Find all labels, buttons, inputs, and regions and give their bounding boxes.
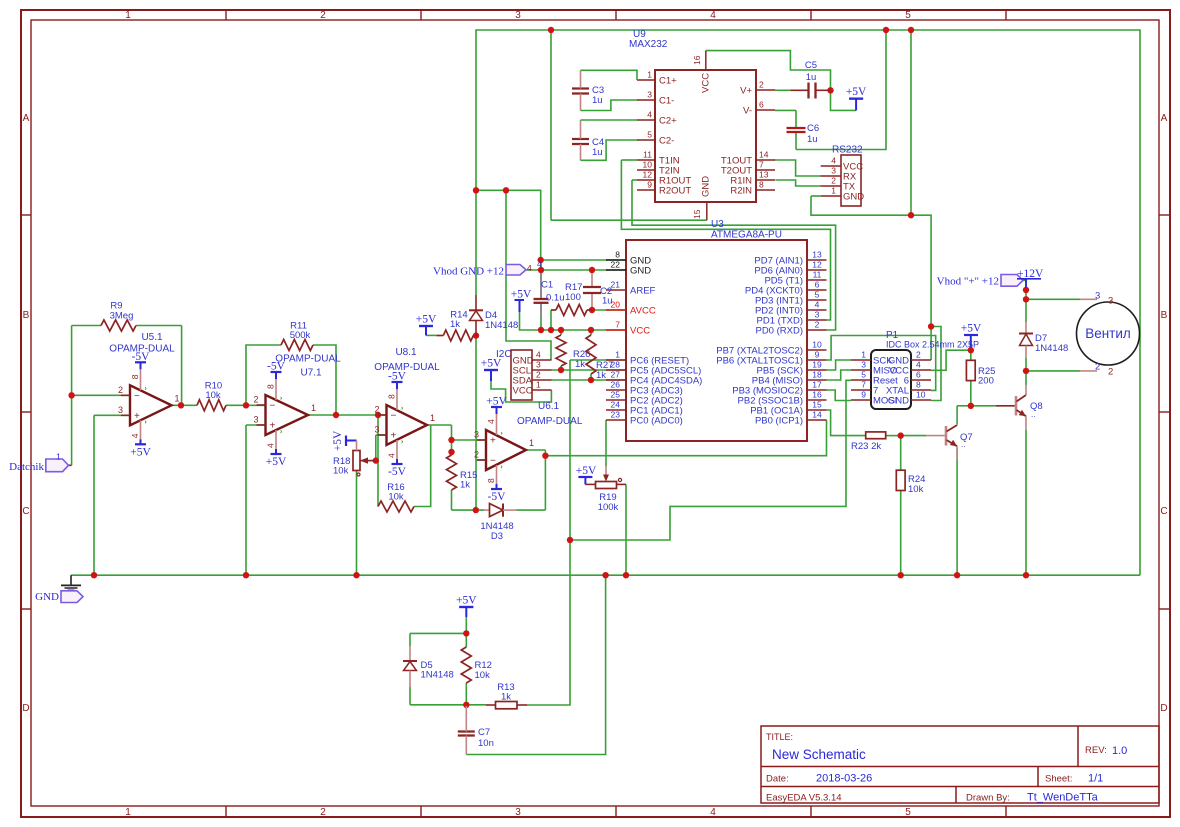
wire to Q7 base [901,435,926,437]
wire D7 to motor pin2 node [1025,358,1027,385]
svg-text:10k: 10k [333,466,349,477]
svg-text:2018-03-26: 2018-03-26 [816,773,872,785]
capacitor C6 [787,123,820,145]
svg-text:+5V: +5V [266,456,287,468]
wire R10 to U7 [226,404,266,406]
svg-text:C: C [1160,506,1167,517]
junction [538,267,544,273]
svg-text:7: 7 [615,320,620,330]
junction [375,412,381,418]
svg-text:+: + [391,431,397,442]
wire R26 top [560,330,562,335]
svg-text:12: 12 [812,260,822,270]
junction [898,572,904,578]
svg-text:GND: GND [888,396,909,407]
svg-text:+5V: +5V [456,595,477,607]
wire C5 to +5V [831,90,857,110]
resistor R24 [896,470,925,495]
svg-text:GND: GND [843,192,864,203]
wire U7 noninverting input [246,424,266,426]
svg-text:+5V: +5V [576,465,597,477]
svg-text:1u: 1u [602,296,613,307]
svg-text:D3: D3 [491,531,503,542]
svg-text:1: 1 [125,10,131,21]
junction [448,449,454,455]
resistor R26 [556,335,590,370]
wire SDA [552,379,627,381]
wire C4 top [581,119,638,121]
port flag [506,265,526,276]
svg-text:100: 100 [565,292,581,303]
diode D7 1N4148 [1019,322,1068,358]
wire U8 out [427,424,452,426]
svg-text:U5.1: U5.1 [141,332,163,343]
svg-text:2: 2 [118,385,123,395]
svg-text:-5V: -5V [488,491,507,503]
svg-text:PD0 (RXD): PD0 (RXD) [755,326,803,337]
svg-text:16: 16 [692,55,702,65]
svg-text:MAX232: MAX232 [629,39,668,50]
svg-text:Date:: Date: [766,774,789,785]
junction [558,327,564,333]
junction [954,572,960,578]
wire P1 pin4 VCC [931,350,971,370]
svg-text:8: 8 [266,384,276,389]
svg-text:4: 4 [710,807,716,818]
svg-text:EasyEDA V5.3.14: EasyEDA V5.3.14 [766,793,842,804]
svg-text:4: 4 [916,360,921,370]
wire R18 wiper riser [375,435,377,461]
svg-text:25: 25 [611,390,621,400]
junction [333,412,339,418]
svg-text:1: 1 [175,393,180,403]
wire GND to C6 [796,30,886,150]
svg-text:1k: 1k [575,359,585,370]
svg-text:REV:: REV: [1085,745,1107,756]
wire R9 right [136,325,182,327]
svg-text:+: + [490,436,496,447]
svg-text:8: 8 [486,478,496,483]
junction [589,307,595,313]
junction [883,27,889,33]
wire PC6 RESET [570,359,626,361]
resistor R25 [966,360,995,386]
wire R25 to Q8 base [971,405,996,407]
svg-text:+: + [134,411,140,422]
wire R19 right lead [617,483,627,485]
wire U6 out riser [544,450,546,510]
wire U5 out [172,404,198,406]
svg-text:4: 4 [647,110,652,120]
svg-text:−: − [134,391,140,402]
junction [473,507,479,513]
wire GND to P1 pin10 [931,327,941,401]
svg-text:8: 8 [387,394,397,399]
svg-text:9: 9 [815,350,820,360]
svg-text:D: D [22,703,29,714]
wire R25 top lead [970,350,972,360]
svg-text:2: 2 [831,176,836,186]
wire D5 R12 bottom node [410,704,486,706]
wire Datchik riser [71,395,73,465]
svg-text:+: + [270,421,276,432]
junction [588,377,594,383]
capacitor C1 [534,280,565,304]
svg-text:OPAMP-DUAL: OPAMP-DUAL [374,362,440,373]
diode D4 1N4148 [469,295,518,336]
wire R23 right [886,435,901,437]
svg-text:1N4148: 1N4148 [421,670,454,681]
svg-text:5: 5 [905,807,911,818]
junction [548,27,554,33]
wire U7 pin3 to GND rail [245,425,247,575]
wire motor pin2 [1026,370,1080,372]
connector P1 IDC Box [851,350,931,410]
resistor R19 potentiometer [596,466,622,513]
wire D4 node down to D3 [475,339,477,511]
junction [1023,296,1029,302]
svg-text:C2-: C2- [659,136,674,147]
wire Datchik port [67,464,72,466]
wire VCC pin7 [520,312,627,330]
wire +5V stem R12 [465,607,467,617]
wire RS232 GND to P1 pin2 [811,196,931,360]
svg-text:18: 18 [812,370,822,380]
svg-text:GND: GND [35,591,59,603]
svg-text:VCC: VCC [513,386,533,397]
svg-text:4: 4 [527,263,532,273]
+5V symbol at R25 [961,323,982,336]
op-amp U6.1 [474,396,534,504]
svg-text:New Schematic: New Schematic [772,747,866,762]
junction [353,572,359,578]
svg-text:4: 4 [387,453,397,458]
svg-text:9: 9 [861,390,866,400]
wire SCL [552,369,627,371]
junction [542,453,548,459]
op-amp U5.1 [118,351,180,459]
svg-text:RS232: RS232 [832,145,863,156]
svg-text:1: 1 [647,70,652,80]
svg-text:10k: 10k [388,491,404,502]
svg-text:27: 27 [611,370,621,380]
wire R9 riser right [181,326,183,406]
svg-text:2: 2 [759,80,764,90]
title block [761,726,1159,803]
wire +5V stem C1 [519,300,521,312]
svg-text:+5V: +5V [332,430,344,451]
svg-text:-5V: -5V [388,466,407,478]
svg-text:C2+: C2+ [659,116,677,127]
wire V- [775,109,796,111]
diode D5 1N4148 [403,646,454,687]
svg-text:3: 3 [815,310,820,320]
wire C3 top [581,70,638,80]
wire R17 left [550,310,552,330]
svg-text:1N4148: 1N4148 [485,320,518,331]
svg-text:17: 17 [812,380,822,390]
junction [1023,287,1029,293]
svg-text:12: 12 [643,170,653,180]
wire PB3 MOSI to P1 pin9 [827,390,852,401]
wire PB6 to P1 pin8 [827,336,936,391]
wire +5V to R14 [426,334,437,336]
svg-text:−: − [391,411,397,422]
svg-text:1: 1 [529,438,534,448]
wire C3 bottom [581,100,638,111]
svg-text:10n: 10n [478,738,494,749]
wire RESET to R13 [527,540,570,705]
svg-text:1u: 1u [592,95,603,106]
wire PC0 to R19 wiper [605,420,607,466]
op-amp U9 MAX232 IC [637,51,775,221]
resistor R23 [851,432,886,452]
svg-text:+5V: +5V [961,323,982,335]
svg-text:Datchik: Datchik [9,461,44,473]
svg-text:3: 3 [515,10,521,21]
wire R12 bottom lead [465,683,467,705]
connector RS232 [821,155,865,206]
resistor R12 [461,647,492,683]
svg-text:1: 1 [615,350,620,360]
junction [463,630,469,636]
svg-text:V-: V- [743,106,752,117]
svg-text:10: 10 [643,160,653,170]
wire R19 left lead [585,483,595,485]
junction [968,347,974,353]
resistor R11 [281,321,313,351]
wire R14 left lead [437,335,444,337]
svg-text:1: 1 [430,413,435,423]
svg-text:4: 4 [266,443,276,448]
op-amp U8.1 [374,371,435,479]
svg-text:5: 5 [647,130,652,140]
svg-text:Drawn By:: Drawn By: [966,793,1010,804]
wire +5V stem R19 [584,477,586,484]
svg-text:3: 3 [374,425,379,435]
svg-text:1: 1 [56,452,61,462]
svg-text:1: 1 [536,380,541,390]
junction [243,402,249,408]
wire GND branch [476,190,541,260]
svg-text:2: 2 [536,370,541,380]
svg-text:5: 5 [861,370,866,380]
svg-text:3: 3 [515,807,521,818]
power +5V [456,595,477,608]
resistor R16 [378,482,414,512]
svg-text:OPAMP-DUAL: OPAMP-DUAL [275,354,341,365]
junction [503,187,509,193]
svg-text:Vhod GND +12: Vhod GND +12 [433,266,504,278]
wire V+ [775,89,790,91]
svg-text:V+: V+ [740,86,752,97]
svg-text:10k: 10k [475,670,491,681]
resistor R15 [447,455,478,491]
wire +5V stem I2C [490,370,492,381]
junction [538,257,544,263]
power +5V [846,86,867,99]
svg-text:7: 7 [759,160,764,170]
svg-text:1k: 1k [501,692,511,703]
svg-text:26: 26 [611,380,621,390]
svg-text:8: 8 [615,250,620,260]
svg-text:11: 11 [643,150,652,160]
svg-text:1: 1 [831,186,836,196]
svg-text:Вентил: Вентил [1085,326,1131,341]
wire Q7 collector [956,406,958,424]
svg-text:4: 4 [130,433,140,438]
junction [91,572,97,578]
svg-text:22: 22 [611,260,621,270]
port flag [61,591,83,603]
wire GND pin8 [541,259,626,261]
wire +5V stem [855,99,857,111]
junction [448,437,454,443]
wire I2C VCC [491,381,551,402]
wire R26 bottom [560,366,562,370]
svg-text:6: 6 [815,280,820,290]
wire C6 top lead [795,110,797,128]
+5V symbol at R19 [576,465,597,477]
svg-text:C5: C5 [805,60,817,71]
wire R9 left [72,325,101,327]
svg-text:A: A [1161,113,1168,124]
wire D5 R12 top node [410,632,466,634]
wire Q7 emitter to GND [956,448,958,575]
svg-text:1k: 1k [450,319,460,330]
power +12V net label [1017,268,1044,288]
wire GND top rail [476,30,1140,575]
svg-text:R2OUT: R2OUT [659,186,691,197]
svg-text:5: 5 [815,290,820,300]
junction [558,367,564,373]
svg-text:2: 2 [320,10,326,21]
svg-text:1: 1 [311,403,316,413]
svg-text:+5V: +5V [481,358,502,370]
svg-text:B: B [23,310,30,321]
resistor R13 [486,682,527,709]
svg-text:C: C [22,506,29,517]
wire C1 top lead [540,272,542,298]
transistor Q8 [996,385,1043,430]
svg-text:Sheet:: Sheet: [1045,774,1072,785]
svg-text:9: 9 [647,180,652,190]
svg-text:24: 24 [611,400,621,410]
junction [928,323,934,329]
wire R1IN to TX [775,180,821,186]
wire GND pin22 [526,269,626,271]
wire C1 bottom lead [540,303,542,318]
svg-text:1.0: 1.0 [1112,745,1127,757]
capacitor C4 [572,120,637,160]
wire T1IN [621,159,637,161]
svg-text:5: 5 [905,10,911,21]
svg-text:−: − [270,401,276,412]
wire port to I2C pin4 [506,275,551,360]
svg-text:3: 3 [536,360,541,370]
svg-text:C1+: C1+ [659,76,677,87]
wire D5 top lead [409,633,411,646]
svg-text:4: 4 [486,419,496,424]
svg-text:..: .. [1031,410,1035,419]
transistor Q7 [926,424,973,460]
wire PB1 to R23 [827,410,866,436]
svg-text:VCC: VCC [630,326,650,337]
wire MAX232 GND15 [551,219,707,221]
svg-text:C1-: C1- [659,96,674,107]
wire R1OUT to PD0 RXD [632,180,836,330]
svg-text:8: 8 [759,180,764,190]
wire R19 to GND rail [625,484,627,575]
wire motor pin3 [1026,298,1080,300]
svg-text:10k: 10k [205,390,221,401]
wire U7 out to U8 [308,414,387,416]
port Vhod GND +12 [433,259,542,278]
svg-text:1k: 1k [460,480,470,491]
wire AVCC [592,309,626,311]
svg-text:OPAMP-DUAL: OPAMP-DUAL [517,416,583,427]
capacitor C3 [572,70,637,110]
wire GND rail [71,574,1140,576]
junction [602,572,608,578]
svg-text:+5V: +5V [486,396,507,408]
svg-text:2: 2 [474,450,479,460]
svg-text:7: 7 [861,380,866,390]
junction [898,432,904,438]
svg-text:3: 3 [831,166,836,176]
svg-text:1u: 1u [806,72,817,83]
svg-text:1: 1 [125,807,131,818]
wire C2 top lead [591,270,593,287]
wire D3 to U6 out [516,509,545,511]
diode D3 1N4148 [480,504,516,543]
svg-text:3: 3 [1095,291,1100,302]
svg-text:10: 10 [812,340,822,350]
wire R9 riser left [71,326,73,396]
svg-text:1u: 1u [807,134,818,145]
svg-text:8: 8 [130,374,140,379]
connector I2C [511,350,552,401]
svg-text:R23 2k: R23 2k [851,441,881,452]
svg-text:−: − [490,456,496,467]
svg-text:14: 14 [812,410,822,420]
svg-text:IDC Box 2.54mm 2X5P: IDC Box 2.54mm 2X5P [886,340,979,350]
wire U5 pin3 to GND rail [93,415,95,575]
capacitor C2 [583,286,613,307]
junction [968,403,974,409]
svg-text:13: 13 [759,170,769,180]
svg-text:1/1: 1/1 [1088,773,1103,785]
svg-text:D: D [1160,703,1167,714]
resistor R9 [101,301,136,332]
svg-text:C7: C7 [478,727,490,738]
wire R15 bottom [451,490,453,510]
svg-text:PB0 (ICP1): PB0 (ICP1) [755,416,803,427]
wire R24 bottom to GND [900,491,902,576]
svg-text:16: 16 [812,390,822,400]
wire R12 top lead [465,633,467,647]
wire C6 bottom lead [795,132,797,150]
svg-text:100k: 100k [598,502,619,513]
junction [908,212,914,218]
svg-text:OPAMP-DUAL: OPAMP-DUAL [109,344,175,355]
wire +5V stem R25 [970,335,972,350]
svg-text:U7.1: U7.1 [300,368,322,379]
junction [623,572,629,578]
power +5V [416,314,437,327]
svg-text:U6.1: U6.1 [538,401,560,412]
wire to U6 noninverting [452,439,487,441]
